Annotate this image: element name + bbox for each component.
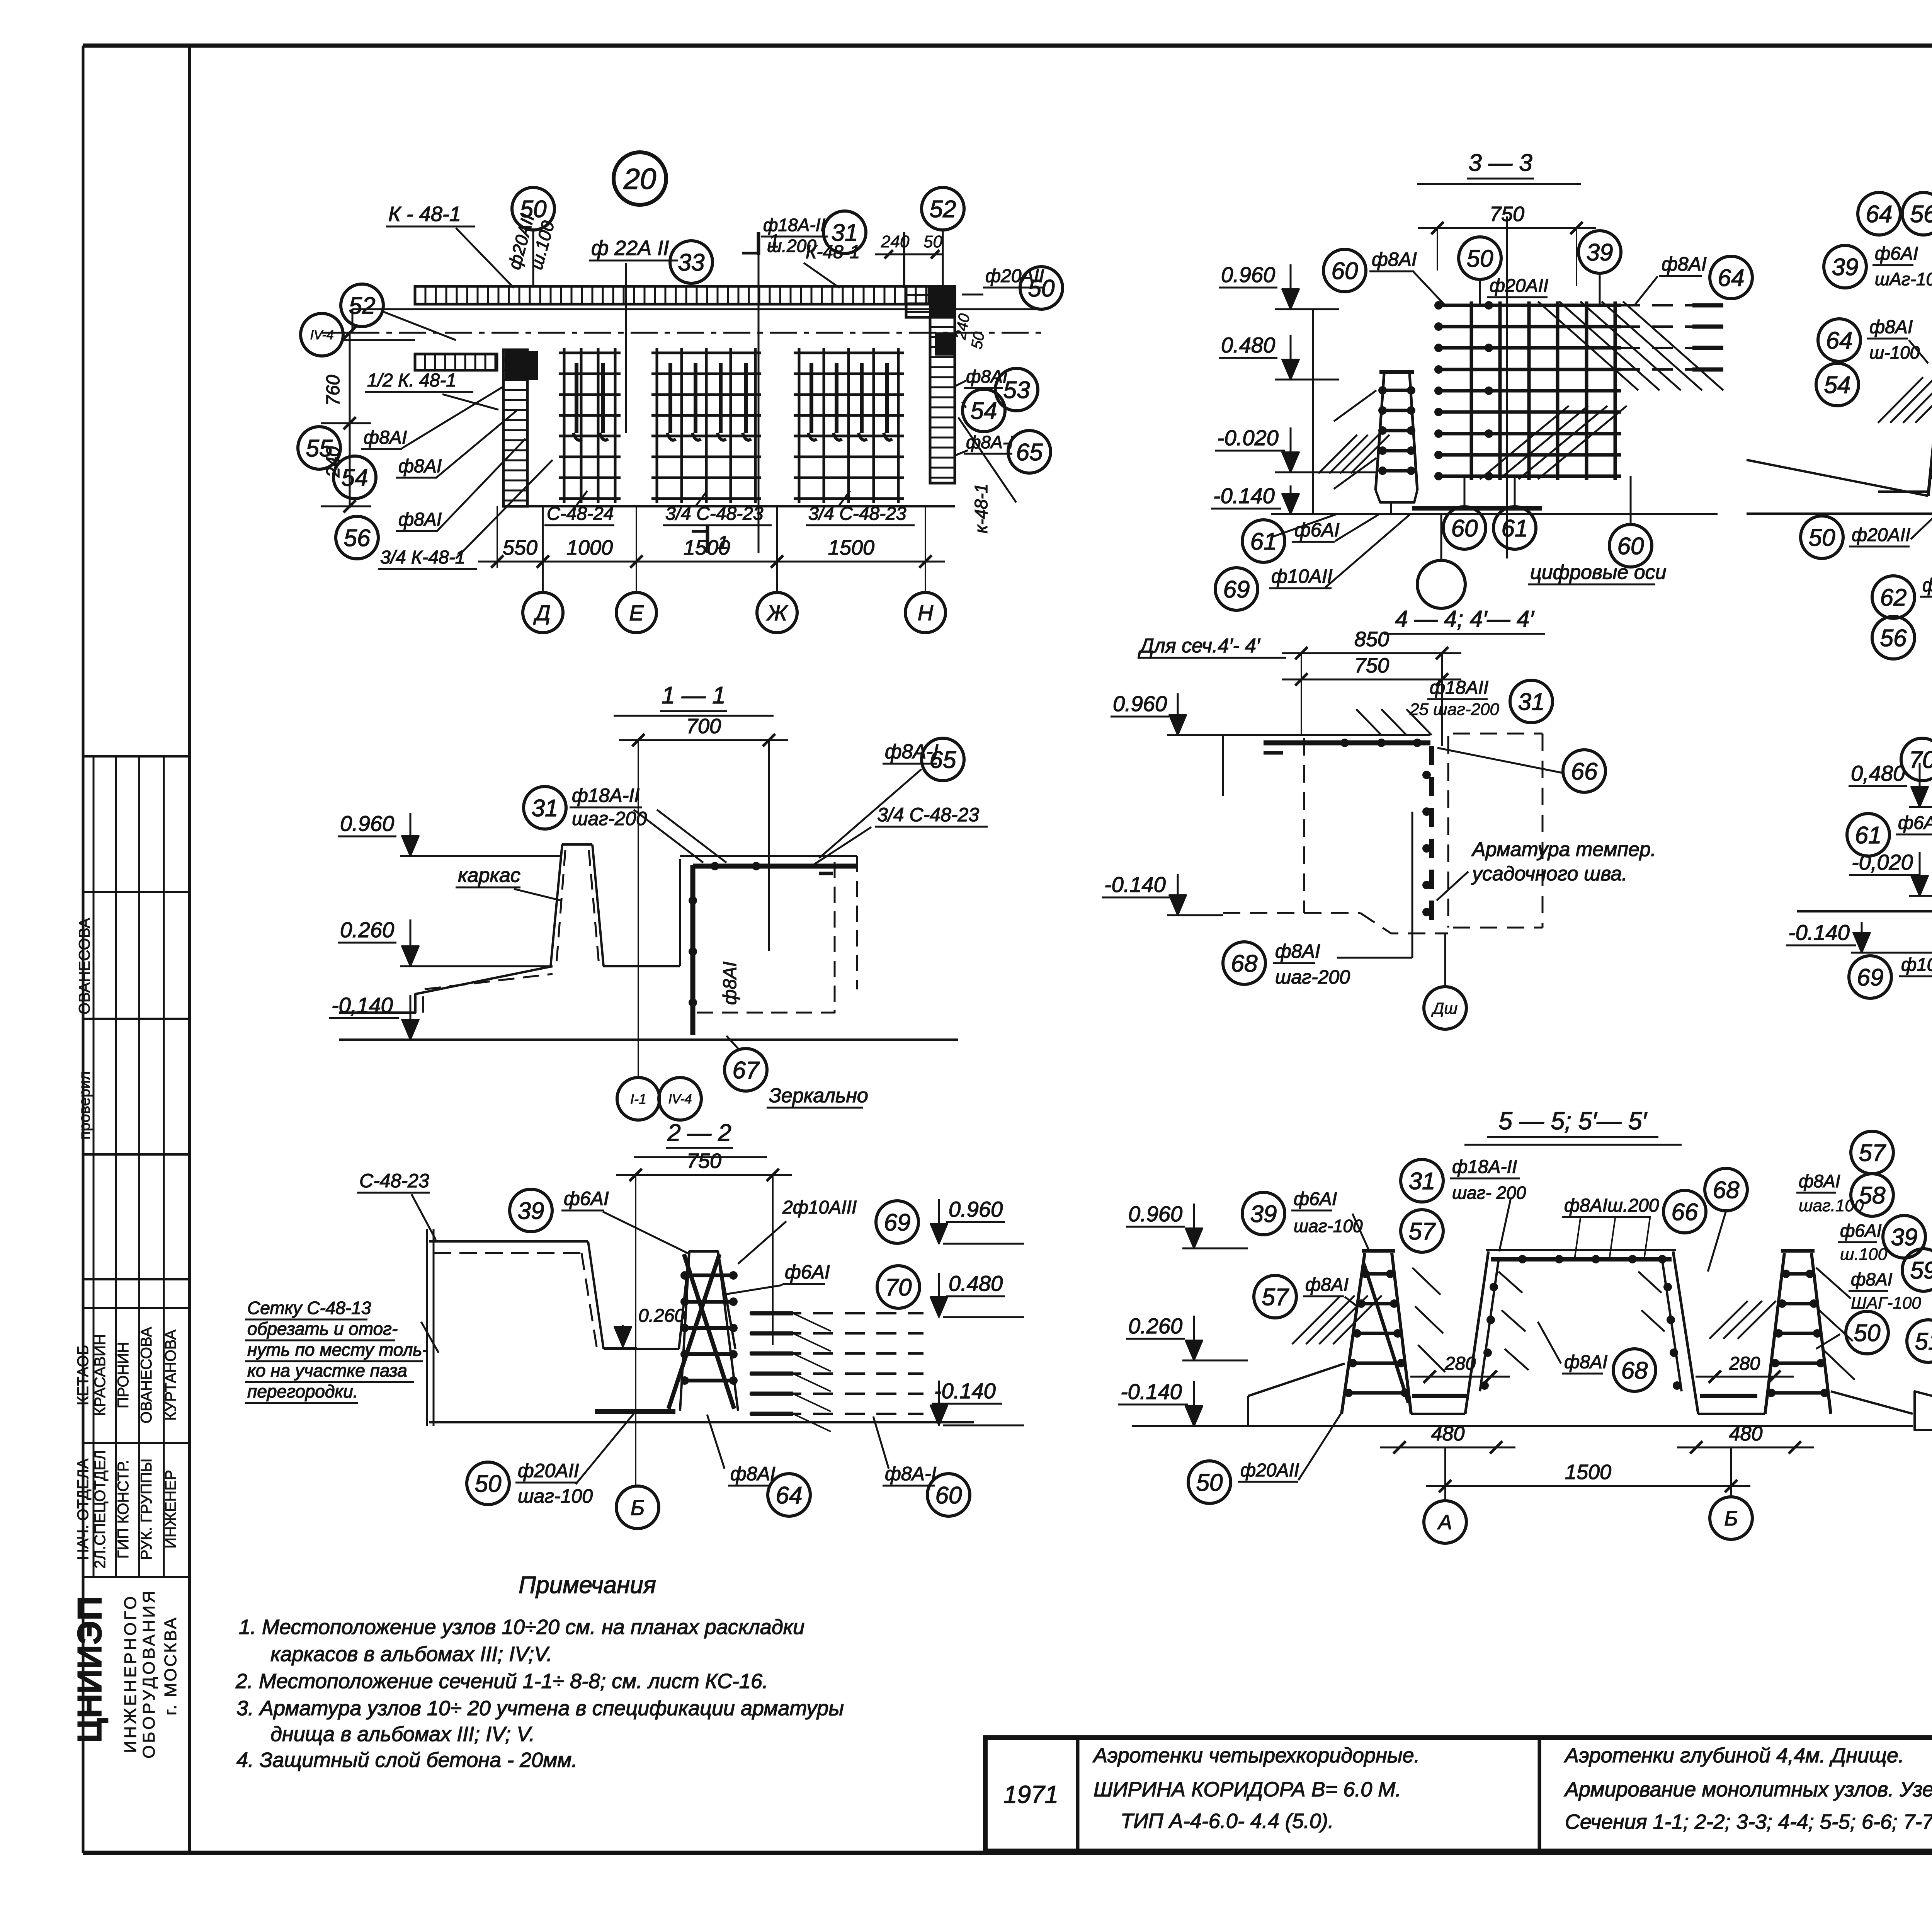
svg-text:52: 52	[349, 293, 376, 319]
svg-text:ф8А-I: ф8А-I	[885, 1463, 937, 1484]
svg-text:ф8АI: ф8АI	[720, 962, 740, 1005]
svg-text:каркас: каркас	[458, 864, 520, 887]
svg-text:КРАСАВИН: КРАСАВИН	[92, 1334, 109, 1416]
svg-text:50: 50	[1028, 275, 1055, 302]
svg-text:50: 50	[1809, 524, 1835, 551]
svg-text:НАЧ. ОТДЕЛА: НАЧ. ОТДЕЛА	[75, 1459, 92, 1560]
svg-text:усадочного шва.: усадочного шва.	[1471, 863, 1628, 885]
svg-text:обрезать и отог-: обрезать и отог-	[247, 1319, 398, 1339]
svg-text:2. Местоположение сечений: 2. Местоположение сечений 1-1÷ 8-8; см. …	[235, 1670, 768, 1693]
svg-text:61: 61	[1855, 822, 1882, 849]
svg-text:ф8АI: ф8АI	[1799, 1171, 1840, 1191]
svg-text:Дш: Дш	[1431, 999, 1458, 1017]
svg-text:760: 760	[323, 375, 344, 406]
svg-text:нуть по месту толь-: нуть по месту толь-	[247, 1340, 428, 1360]
svg-text:39: 39	[518, 1198, 544, 1224]
svg-text:-0.020: -0.020	[1217, 426, 1279, 450]
svg-text:ф20АII: ф20АII	[1490, 276, 1548, 296]
svg-text:750: 750	[687, 1149, 721, 1173]
svg-text:ф6АI: ф6АI	[1840, 1221, 1882, 1241]
svg-text:1971: 1971	[1003, 1781, 1058, 1808]
svg-text:4. Защитный слой бетона - 20: 4. Защитный слой бетона - 20мм.	[236, 1748, 577, 1772]
svg-text:1 — 1: 1 — 1	[662, 682, 725, 709]
svg-text:0.260: 0.260	[638, 1306, 685, 1326]
svg-text:К - 48-1: К - 48-1	[388, 203, 461, 226]
svg-text:-0.140: -0.140	[1104, 872, 1166, 897]
svg-text:39: 39	[1891, 1224, 1918, 1251]
svg-text:Примечания: Примечания	[519, 1572, 656, 1599]
svg-text:3/4 С-48-23: 3/4 С-48-23	[665, 504, 764, 524]
svg-text:56: 56	[1880, 625, 1907, 652]
svg-text:ко на участке паза: ко на участке паза	[247, 1360, 407, 1381]
svg-text:шаг-100: шаг-100	[518, 1485, 593, 1507]
svg-text:ф8АIш.200: ф8АIш.200	[1564, 1195, 1659, 1216]
svg-text:Зеркально: Зеркально	[769, 1084, 868, 1107]
svg-text:56: 56	[344, 525, 371, 552]
svg-text:54: 54	[342, 465, 368, 491]
svg-text:65: 65	[930, 747, 956, 773]
svg-text:57: 57	[1262, 1284, 1289, 1311]
svg-text:1000: 1000	[566, 536, 613, 559]
svg-text:50: 50	[968, 330, 988, 350]
svg-text:31: 31	[1518, 689, 1545, 715]
svg-text:66: 66	[1571, 758, 1598, 785]
svg-text:проверил: проверил	[76, 1071, 93, 1139]
svg-text:РУК. ГРУППЫ: РУК. ГРУППЫ	[138, 1459, 155, 1560]
svg-text:шаг.100: шаг.100	[1799, 1196, 1864, 1215]
svg-text:-0.140: -0.140	[934, 1379, 996, 1403]
svg-text:С-48-23: С-48-23	[359, 1170, 429, 1192]
svg-text:шаг- 200: шаг- 200	[1452, 1183, 1526, 1203]
svg-text:К-48-1: К-48-1	[806, 242, 860, 262]
svg-text:Сетку С-48-13: Сетку С-48-13	[247, 1298, 371, 1318]
svg-text:60: 60	[935, 1482, 962, 1509]
svg-text:ф8АI: ф8АI	[1869, 317, 1913, 337]
svg-text:39: 39	[1250, 1201, 1277, 1227]
svg-text:62: 62	[1880, 584, 1907, 611]
svg-text:0.960: 0.960	[340, 811, 394, 836]
svg-text:0.480: 0.480	[949, 1271, 1003, 1296]
svg-text:240: 240	[881, 232, 910, 251]
svg-text:54: 54	[1824, 372, 1851, 398]
svg-text:ф8АI: ф8АI	[1662, 253, 1707, 275]
svg-text:ф8АI: ф8АI	[1922, 575, 1932, 596]
svg-text:каркасов в альбомах III; IV;: каркасов в альбомах III; IV;V.	[270, 1643, 552, 1666]
svg-text:0.960: 0.960	[1221, 262, 1275, 287]
svg-text:Ж: Ж	[766, 601, 788, 625]
svg-text:IV-4: IV-4	[668, 1092, 692, 1107]
svg-text:ИНЖЕНЕРНОГО: ИНЖЕНЕРНОГО	[121, 1594, 140, 1753]
svg-text:68: 68	[1713, 1177, 1740, 1204]
svg-text:33: 33	[678, 249, 705, 276]
svg-text:ф6АI: ф6АI	[1294, 1189, 1337, 1209]
svg-text:2Л.СПЕЦОТДЕЛ: 2Л.СПЕЦОТДЕЛ	[92, 1450, 109, 1569]
svg-text:ГИП КОНСТР.: ГИП КОНСТР.	[115, 1460, 132, 1558]
svg-text:ф8А-I: ф8А-I	[966, 432, 1014, 452]
svg-text:ИНЖЕНЕР: ИНЖЕНЕР	[162, 1470, 179, 1549]
svg-text:Армирование монолитных: Армирование монолитных узлов. Узел 20.	[1564, 1778, 1932, 1801]
svg-text:ОВАНЕСОВА: ОВАНЕСОВА	[138, 1327, 155, 1423]
svg-text:50: 50	[1196, 1469, 1223, 1496]
svg-text:Б: Б	[631, 1495, 645, 1520]
svg-text:64: 64	[1718, 265, 1745, 291]
svg-text:ф8АI: ф8АI	[398, 456, 442, 477]
svg-text:I-1: I-1	[630, 1091, 646, 1107]
svg-text:ШИРИНА КОРИДОРА В= 6.0 М.: ШИРИНА КОРИДОРА В= 6.0 М.	[1094, 1778, 1401, 1801]
svg-text:280: 280	[1729, 1353, 1760, 1374]
svg-text:3. Арматура узлов 10÷ 20 учт: 3. Арматура узлов 10÷ 20 учтена в специф…	[236, 1697, 844, 1720]
svg-text:750: 750	[1354, 654, 1389, 677]
svg-text:ф8АI: ф8АI	[730, 1463, 776, 1484]
svg-text:ф10А-II: ф10А-II	[1901, 955, 1932, 975]
svg-text:2 — 2: 2 — 2	[667, 1120, 731, 1146]
svg-text:60: 60	[1617, 533, 1644, 560]
svg-text:ф20АII: ф20АII	[518, 1460, 579, 1481]
svg-text:52: 52	[930, 196, 956, 223]
svg-text:31: 31	[532, 795, 558, 822]
svg-text:31: 31	[1409, 1168, 1435, 1195]
svg-text:39: 39	[1832, 254, 1859, 281]
svg-text:0,480: 0,480	[1851, 761, 1905, 785]
svg-text:65: 65	[1016, 439, 1043, 466]
svg-text:0.960: 0.960	[949, 1197, 1003, 1221]
svg-text:69: 69	[1857, 964, 1884, 991]
svg-text:ф18А-II: ф18А-II	[1452, 1157, 1517, 1177]
svg-text:56: 56	[1910, 201, 1932, 228]
svg-text:5 — 5; 5′— 5′: 5 — 5; 5′— 5′	[1498, 1107, 1647, 1135]
svg-text:КЕТАОБ: КЕТАОБ	[75, 1345, 92, 1405]
svg-text:ф6АI: ф6АI	[564, 1188, 609, 1209]
svg-text:50: 50	[1854, 1320, 1881, 1347]
svg-text:0.480: 0.480	[1221, 333, 1275, 357]
svg-text:шАг-100: шАг-100	[1875, 269, 1932, 289]
svg-text:20: 20	[623, 163, 656, 196]
svg-text:50: 50	[1467, 245, 1493, 272]
svg-text:шаг-200: шаг-200	[1275, 966, 1350, 988]
svg-text:ф6АI: ф6АI	[1875, 243, 1918, 264]
svg-text:ф18А-II: ф18А-II	[763, 215, 825, 235]
svg-text:Сечения 1-1; 2-2; 3-3; 4: Сечения 1-1; 2-2; 3-3; 4-4; 5-5; 6-6; 7-…	[1565, 1810, 1932, 1833]
svg-text:66: 66	[1672, 1199, 1698, 1226]
svg-text:-0.140: -0.140	[1213, 483, 1275, 508]
svg-text:700: 700	[686, 715, 721, 738]
svg-text:1/2 К. 48-1: 1/2 К. 48-1	[367, 370, 456, 391]
svg-text:59: 59	[1910, 1257, 1932, 1284]
svg-text:ф8АI: ф8АI	[1275, 940, 1320, 962]
svg-text:ф10АII: ф10АII	[1271, 565, 1333, 587]
svg-text:850: 850	[1354, 628, 1389, 651]
svg-text:ф8АI: ф8АI	[1564, 1352, 1607, 1372]
svg-text:ПРОНИН: ПРОНИН	[115, 1342, 132, 1408]
svg-text:0.260: 0.260	[340, 918, 394, 942]
svg-text:ш.100: ш.100	[1840, 1245, 1888, 1264]
svg-text:1500: 1500	[828, 536, 874, 559]
svg-text:3/4 К-48-1: 3/4 К-48-1	[380, 547, 465, 568]
svg-text:А: А	[1437, 1511, 1452, 1534]
svg-text:0.260: 0.260	[1128, 1314, 1182, 1338]
svg-text:ф8АI: ф8АI	[1851, 1269, 1893, 1289]
svg-text:Аэротенки четырехкоридорные: Аэротенки четырехкоридорные.	[1092, 1744, 1420, 1767]
svg-text:-0.140: -0.140	[1788, 920, 1850, 945]
svg-text:ОБОРУДОВАНИЯ: ОБОРУДОВАНИЯ	[139, 1588, 158, 1759]
svg-text:61: 61	[1250, 528, 1277, 555]
svg-text:ф 22А II: ф 22А II	[591, 237, 669, 260]
svg-text:ф6АI: ф6АI	[1898, 813, 1932, 833]
svg-text:70: 70	[885, 1274, 912, 1301]
svg-text:ЦНИИЭП: ЦНИИЭП	[70, 1596, 109, 1743]
svg-text:Д: Д	[533, 601, 550, 625]
svg-text:64: 64	[1866, 201, 1893, 228]
svg-text:280: 280	[1444, 1353, 1476, 1374]
svg-text:перегородки.: перегородки.	[247, 1381, 358, 1401]
svg-text:днища в альбомах III; IV;: днища в альбомах III; IV; V.	[270, 1723, 535, 1746]
svg-text:68: 68	[1621, 1357, 1648, 1384]
svg-text:ТИП А-4-6.0- 4.4 (5.0).: ТИП А-4-6.0- 4.4 (5.0).	[1121, 1810, 1334, 1833]
svg-text:ф8АI: ф8АI	[398, 509, 442, 530]
svg-text:68: 68	[1231, 950, 1258, 977]
svg-text:39: 39	[1587, 239, 1613, 266]
svg-text:64: 64	[1826, 327, 1853, 354]
svg-text:ф8АI: ф8АI	[1372, 249, 1417, 270]
svg-text:-0,020: -0,020	[1852, 850, 1913, 874]
svg-text:Е: Е	[629, 601, 644, 625]
svg-text:3/4 С-48-23: 3/4 С-48-23	[808, 504, 906, 524]
svg-text:КУРТАНОВА: КУРТАНОВА	[162, 1330, 179, 1421]
svg-text:51: 51	[1915, 1328, 1932, 1355]
svg-text:ф18А-II: ф18А-II	[572, 785, 639, 806]
svg-text:67: 67	[733, 1057, 760, 1084]
svg-text:1. Местоположение узлов 10÷2: 1. Местоположение узлов 10÷20 см. на пла…	[239, 1616, 804, 1639]
svg-text:69: 69	[884, 1209, 911, 1236]
svg-text:480: 480	[1431, 1423, 1465, 1445]
svg-text:шаг-100: шаг-100	[1294, 1216, 1363, 1236]
svg-text:IV-4: IV-4	[310, 328, 333, 342]
svg-text:2ф10АIII: 2ф10АIII	[782, 1197, 857, 1218]
svg-text:ф6АI: ф6АI	[785, 1261, 830, 1283]
svg-text:ф18АII: ф18АII	[1430, 678, 1488, 698]
svg-text:Для сеч.4′- 4′: Для сеч.4′- 4′	[1138, 635, 1261, 657]
svg-text:57: 57	[1859, 1140, 1886, 1166]
svg-text:54: 54	[971, 398, 997, 424]
svg-text:г. МОСКВА: г. МОСКВА	[161, 1616, 180, 1716]
svg-text:50: 50	[475, 1471, 502, 1497]
svg-text:50: 50	[923, 232, 942, 251]
svg-text:ШАГ-100: ШАГ-100	[1851, 1294, 1921, 1313]
svg-text:480: 480	[1729, 1423, 1763, 1445]
svg-text:Б: Б	[1724, 1507, 1738, 1530]
svg-text:1500: 1500	[1565, 1461, 1611, 1484]
svg-text:0.960: 0.960	[1113, 691, 1167, 716]
svg-text:550: 550	[503, 536, 537, 559]
svg-text:ф8АI: ф8АI	[1305, 1275, 1349, 1295]
svg-text:ф8АI: ф8АI	[364, 427, 407, 448]
svg-text:3/4 С-48-23: 3/4 С-48-23	[877, 804, 979, 826]
svg-text:55: 55	[306, 435, 333, 462]
svg-text:Арматура темпер.: Арматура темпер.	[1471, 838, 1656, 861]
svg-text:Аэротенки глубиной 4,4м.: Аэротенки глубиной 4,4м. Днище.	[1564, 1744, 1904, 1767]
svg-text:60: 60	[1451, 515, 1478, 542]
svg-text:Н: Н	[918, 601, 934, 625]
svg-text:64: 64	[776, 1482, 803, 1509]
svg-text:цифровые оси: цифровые оси	[1530, 561, 1667, 584]
svg-text:ф20АII: ф20АII	[1240, 1460, 1299, 1481]
svg-text:3 — 3: 3 — 3	[1468, 150, 1532, 176]
svg-text:25 шаг-200: 25 шаг-200	[1409, 700, 1499, 719]
svg-text:ф8АI: ф8АI	[966, 366, 1008, 386]
svg-text:-0.140: -0.140	[1121, 1379, 1182, 1404]
svg-text:к-48-1: к-48-1	[971, 483, 991, 533]
svg-text:1: 1	[718, 533, 728, 553]
svg-text:60: 60	[1332, 258, 1358, 284]
svg-text:С-48-24: С-48-24	[547, 504, 614, 524]
svg-text:4 — 4; 4′— 4′: 4 — 4; 4′— 4′	[1395, 606, 1534, 632]
svg-text:69: 69	[1223, 576, 1250, 603]
svg-text:50: 50	[520, 196, 547, 223]
svg-text:0.960: 0.960	[1128, 1202, 1182, 1226]
svg-text:ОВАНЕСОВА: ОВАНЕСОВА	[76, 918, 93, 1015]
svg-text:ф6АI: ф6АI	[1294, 519, 1340, 541]
svg-text:61: 61	[1502, 515, 1528, 542]
svg-text:ф20АII: ф20АII	[1852, 525, 1910, 545]
svg-text:57: 57	[1409, 1218, 1436, 1245]
